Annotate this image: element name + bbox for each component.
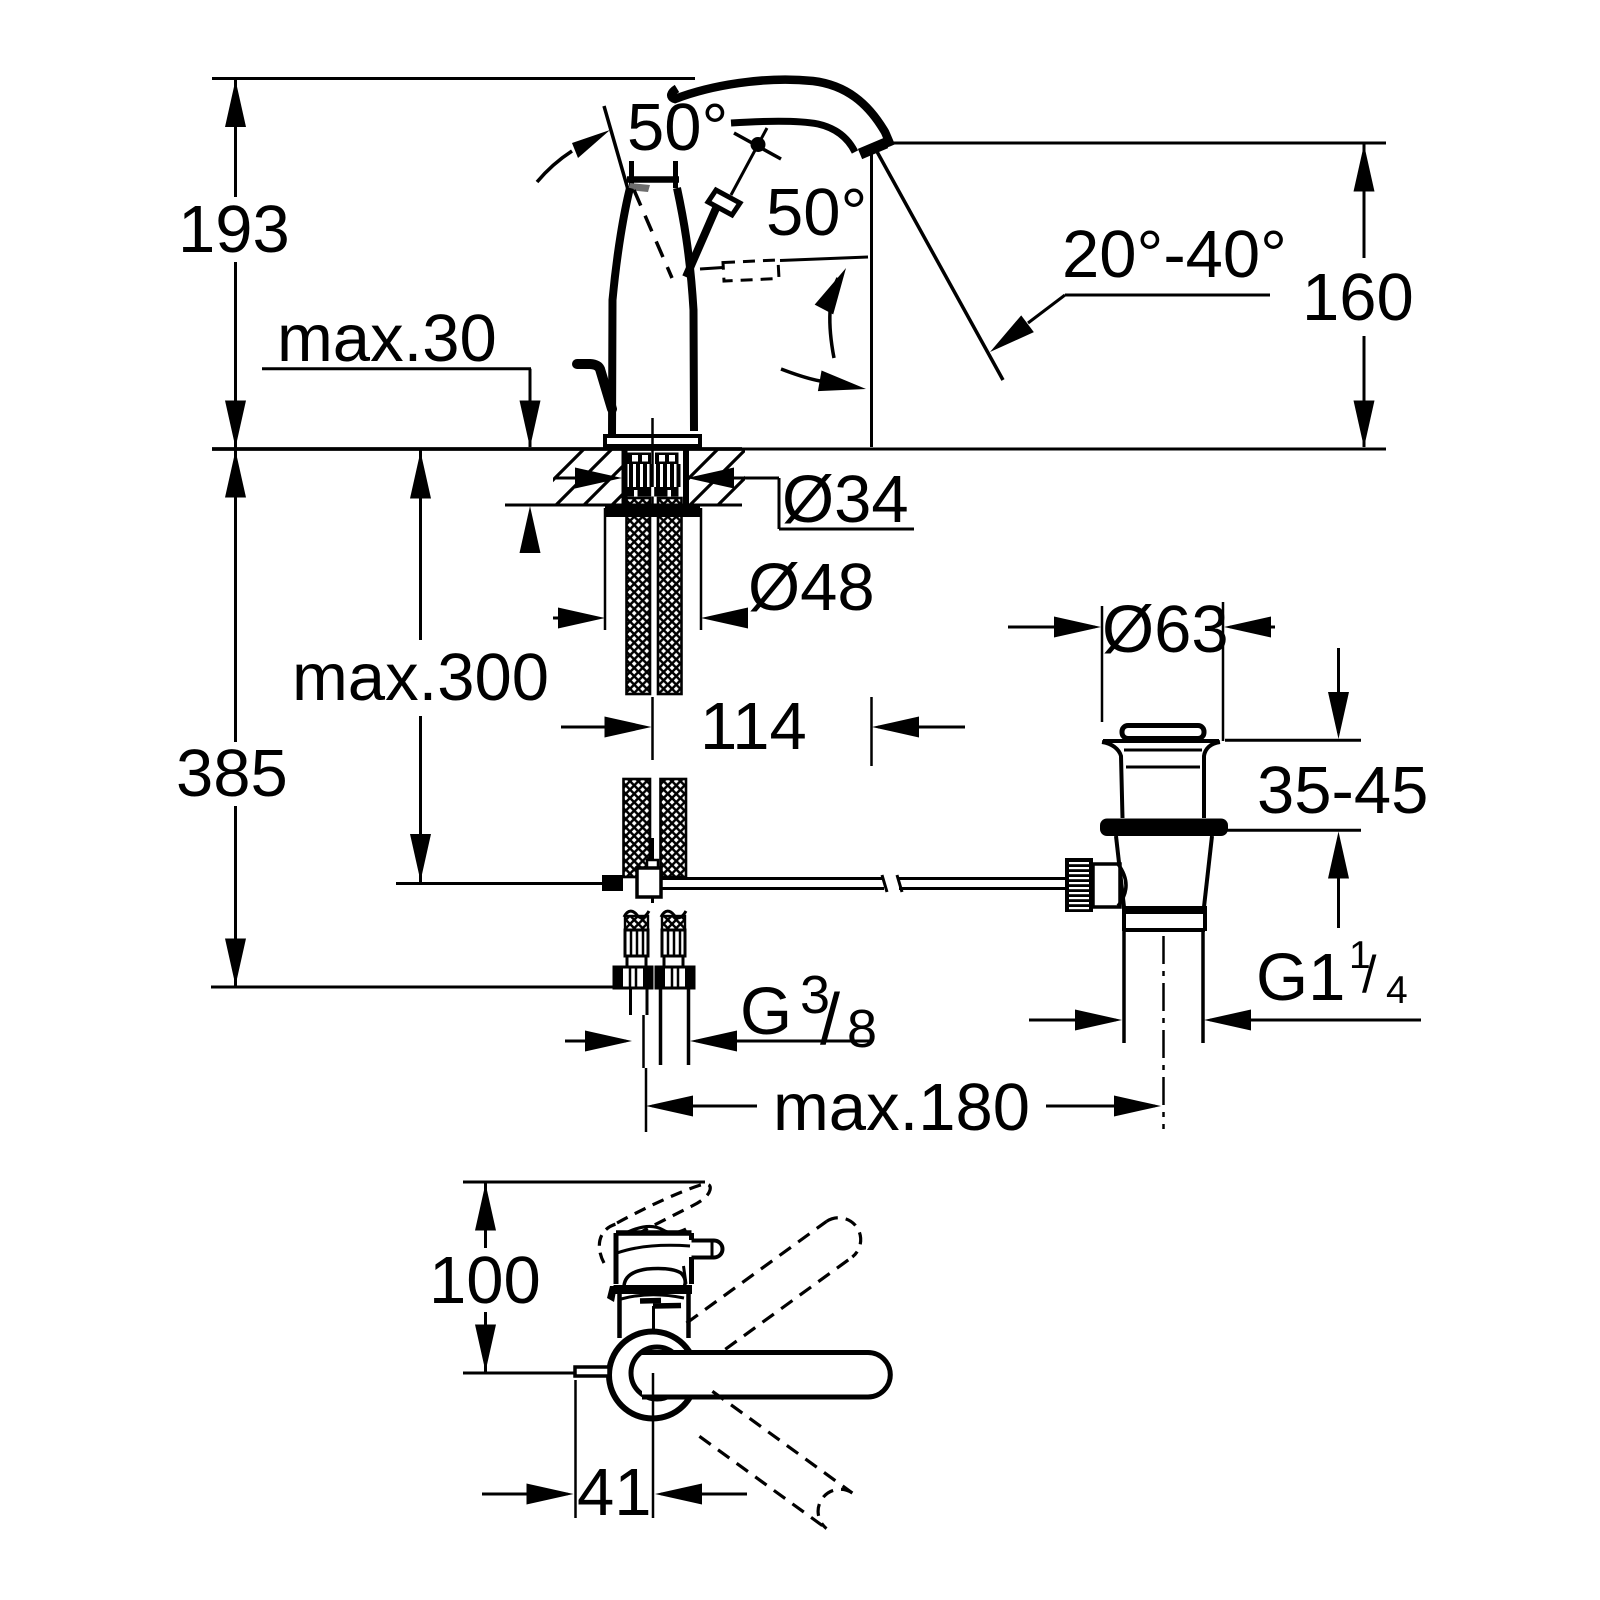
counter hatching right — [660, 447, 804, 507]
faucet center line upper — [651, 418, 654, 504]
label 41 — [577, 1455, 652, 1530]
20-40 leader line with arrow — [984, 295, 1270, 360]
pop-up waste inner line upper — [1124, 749, 1202, 752]
label G1 1/4 — [1256, 934, 1408, 1015]
max.30 lower arrow at counter underside — [520, 506, 541, 553]
closed lever thin line right segment — [780, 257, 868, 261]
supply pipe left below nut — [631, 988, 648, 1068]
dimension diam34 arrows at shank — [556, 468, 779, 489]
41 left extension line — [574, 1380, 577, 1518]
dimension 193 vertical line with arrows — [225, 79, 246, 450]
hose end fitting left neck — [627, 956, 646, 967]
threaded shank vertical thread bars — [629, 464, 681, 487]
lowered lever blob outline — [624, 1266, 686, 1286]
G3/8 nut left — [614, 967, 652, 988]
waste lower ring — [1124, 914, 1205, 931]
dimension 385 vertical line with arrows — [225, 449, 246, 987]
svg-text:100: 100 — [429, 1243, 541, 1318]
label diam 34 — [782, 462, 909, 537]
left nub — [575, 1367, 609, 1376]
dim 100 top reference line — [463, 1181, 705, 1184]
label G3/8 — [740, 965, 877, 1060]
faucet center extension line for 114 — [651, 697, 654, 760]
lever axis thin line to pivot — [731, 128, 767, 195]
hidden lever dashed line inside body — [634, 190, 672, 278]
pop-up waste flange right shoulder — [1204, 742, 1220, 818]
drain tailpipe left wall — [1122, 931, 1126, 1043]
label max.180 — [773, 1070, 1030, 1145]
lever lift arc arrow — [815, 263, 856, 358]
valve knurled knob — [1065, 858, 1093, 912]
dimension G3/8 arrows — [565, 1031, 873, 1052]
pop-up rod vertical at faucet — [651, 838, 654, 903]
base outer ring circle — [609, 1332, 696, 1419]
label 100 — [429, 1243, 541, 1318]
svg-text:G: G — [740, 974, 792, 1049]
dimension G1 1/4 arrows — [1029, 1010, 1421, 1031]
svg-text:4: 4 — [1386, 969, 1408, 1012]
drain center line dash-dot — [1162, 936, 1165, 1129]
braided hose upper left — [627, 498, 651, 694]
diam63 left extension line — [1101, 606, 1104, 722]
lever pin stadium — [692, 1241, 723, 1258]
svg-text:Ø34: Ø34 — [782, 462, 909, 537]
diam34 leader corner and underline — [779, 478, 914, 529]
diam48 right extension line — [700, 508, 703, 630]
dim 100 bottom reference line — [463, 1372, 576, 1375]
svg-text:50°: 50° — [627, 90, 728, 165]
svg-text:G1: G1 — [1256, 940, 1345, 1015]
hose end fitting right neck — [664, 956, 683, 967]
label 193 — [178, 192, 290, 267]
svg-text:114: 114 — [700, 689, 807, 764]
label 160 — [1302, 260, 1414, 335]
svg-text:193: 193 — [178, 192, 290, 267]
label max.300 — [292, 640, 549, 715]
front view top squiggle — [628, 1226, 686, 1232]
svg-text:8: 8 — [847, 999, 877, 1059]
faucet body left side — [612, 188, 630, 436]
pop-up waste push button — [1122, 726, 1204, 739]
hose end fitting right braid stub — [661, 911, 686, 930]
dashed curl left of body — [599, 1224, 616, 1263]
label 35-45 — [1257, 753, 1428, 828]
dimension 100 vertical line with arrows — [475, 1183, 496, 1372]
dimension 41 arrows — [482, 1484, 747, 1505]
label 50 deg swivel — [766, 175, 867, 250]
label 50 deg handle angle — [627, 90, 728, 165]
mounting washer 48mm — [605, 504, 700, 517]
faucet cap right stub — [673, 161, 678, 188]
pop-up rod coupler box — [637, 860, 661, 897]
middle thick dashes — [640, 1301, 681, 1307]
pop-up waste flange top edge — [1103, 739, 1219, 743]
raised lever dashed outline — [617, 1184, 710, 1237]
pop-up rod hook behind body — [577, 364, 612, 409]
counter underside line — [505, 504, 742, 507]
faucet spout inner curve — [731, 121, 855, 152]
label max.30 — [277, 301, 497, 376]
faucet body right side — [677, 188, 694, 431]
svg-text:385: 385 — [176, 736, 288, 811]
dimension diam63 arrows — [1008, 617, 1275, 638]
35-45 bottom reference line — [1227, 829, 1361, 832]
braided hose lower right — [661, 779, 687, 877]
max.180 left extension line — [645, 1068, 648, 1132]
label diam 63 — [1102, 592, 1229, 667]
closed lever thin line left segment — [700, 268, 723, 270]
svg-text:20°-40°: 20°-40° — [1062, 217, 1287, 292]
pop-up rod left end cap — [602, 875, 623, 891]
hose end fitting left collar — [625, 930, 648, 956]
spout tip vertical extension line — [870, 145, 873, 447]
handle bar horizontal stadium — [642, 1353, 890, 1398]
braided hose lower left — [624, 779, 651, 877]
svg-text:/: / — [1362, 946, 1377, 1004]
waste body right wall — [1204, 836, 1212, 907]
label 20-40 deg — [1062, 217, 1287, 292]
drain tailpipe right wall — [1201, 931, 1205, 1043]
front view body top rectangle — [616, 1233, 692, 1284]
dimension 160 vertical line with arrows — [1354, 143, 1375, 448]
svg-text:41: 41 — [577, 1455, 652, 1530]
50 deg handle axis slanted line — [604, 106, 629, 193]
dimension max.300 vertical line with arrows — [410, 450, 431, 882]
faucet spout end face — [860, 143, 886, 154]
pop-up horizontal rod thin left section — [396, 882, 602, 885]
dimension max.180 right arrow — [1046, 1096, 1161, 1117]
open lever end cap rectangle — [708, 190, 740, 215]
shank right wall — [683, 449, 689, 504]
hidden rod centerline in middle rect — [652, 1306, 655, 1333]
G3/8 nut right — [656, 967, 694, 988]
hose end fitting right collar — [662, 930, 685, 956]
dashed handle swung down — [699, 1391, 852, 1528]
svg-text:max.30: max.30 — [277, 301, 497, 376]
braided hose upper right — [658, 498, 682, 694]
dimension max.180 left arrow — [646, 1096, 757, 1117]
spout tip extension line for 114 — [870, 697, 873, 766]
dimension 114 left arrow — [561, 717, 652, 738]
diam63 right extension line — [1222, 602, 1225, 741]
pop-up waste inner line lower — [1126, 766, 1200, 769]
dimension 114 right arrow — [872, 717, 965, 738]
svg-text:50°: 50° — [766, 175, 867, 250]
base inner circle — [631, 1347, 683, 1399]
middle arc detail — [621, 1295, 684, 1299]
gray wedge below crossbar — [628, 183, 650, 192]
svg-text:35-45: 35-45 — [1257, 753, 1428, 828]
svg-text:Ø48: Ø48 — [748, 550, 875, 625]
front view water wiggle line — [617, 1245, 690, 1253]
pop-up horizontal rod double line to drain with break — [661, 875, 1066, 892]
valve cylinder — [1093, 864, 1126, 907]
threaded shank lower black band with slots — [628, 487, 679, 497]
closed lever end cap dashed rectangle — [723, 260, 779, 281]
pivot cross marker — [734, 133, 781, 159]
diam48 left extension line — [604, 508, 607, 630]
waste body bottom band — [1122, 906, 1207, 914]
svg-text:max.300: max.300 — [292, 640, 549, 715]
shank left wall — [622, 449, 628, 504]
escutcheon base plate — [605, 436, 700, 446]
svg-text:/: / — [820, 980, 840, 1060]
counter hatching left — [526, 447, 670, 507]
threaded shank upper black band with slots — [628, 453, 679, 465]
faucet cap left stub — [629, 161, 634, 188]
dimension 35-45 upper arrow — [1328, 648, 1349, 739]
faucet spout outer curve — [671, 80, 891, 146]
dimension 35-45 lower arrow — [1328, 832, 1349, 929]
dimension diam48 arrows — [553, 608, 748, 629]
41 center extension line — [652, 1373, 655, 1518]
svg-text:max.180: max.180 — [773, 1070, 1030, 1145]
label diam 48 — [748, 550, 875, 625]
pop-up waste flange left shoulder — [1102, 742, 1123, 818]
front view body middle left wall — [617, 1294, 622, 1338]
dashed handle swung up — [687, 1218, 861, 1350]
hose end fitting left braid stub — [624, 911, 649, 930]
supply pipe right below nut — [661, 988, 689, 1065]
open lever thick arm — [686, 206, 717, 277]
svg-text:160: 160 — [1302, 260, 1414, 335]
faucet cap crossbar — [627, 176, 679, 183]
35-45 top reference line — [1225, 739, 1361, 742]
leader arrow to 50 deg handle axis — [537, 130, 610, 182]
svg-text:Ø63: Ø63 — [1102, 592, 1229, 667]
cartridge ring black band — [607, 1285, 692, 1302]
spout swivel arc arrow — [781, 369, 868, 399]
waste body left wall — [1116, 836, 1124, 907]
max.30 leader underline and arrow to countertop — [262, 369, 541, 448]
label 385 — [176, 736, 288, 811]
dim line 193 top reference line — [212, 77, 695, 80]
front view body middle right wall — [686, 1294, 691, 1338]
385 bottom reference line — [211, 986, 615, 989]
rubber gasket — [1100, 819, 1228, 837]
label 114 — [700, 689, 807, 764]
countertop surface line — [212, 447, 1386, 451]
dim 160 top reference line — [888, 142, 1386, 145]
spout tilt diagonal line 20-40 deg — [875, 148, 1003, 381]
